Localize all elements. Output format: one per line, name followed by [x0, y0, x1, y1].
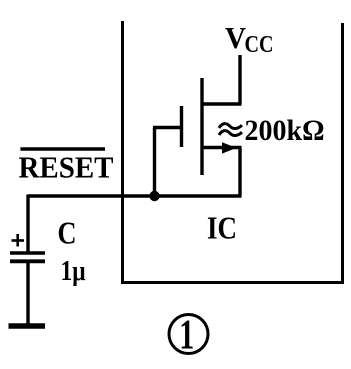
label approx 200k ohm — [219, 114, 325, 147]
wire gate down to node — [153, 128, 156, 197]
capacitor C plates — [10, 253, 45, 261]
wire gate lead — [153, 126, 182, 129]
svg-text:1μ: 1μ — [61, 255, 86, 287]
figure number 1 (circled) — [169, 313, 208, 359]
svg-text:CC: CC — [245, 32, 274, 58]
IC outline box (open top) — [123, 21, 343, 283]
label VCC — [225, 20, 274, 58]
label RESET (active low, overline) — [19, 149, 114, 185]
wire VCC supply lead — [238, 55, 241, 104]
plus polarity mark — [12, 234, 25, 247]
svg-text:1: 1 — [179, 313, 194, 359]
wire source down to node — [238, 148, 241, 197]
svg-text:V: V — [225, 20, 247, 55]
node junction dot — [149, 191, 159, 201]
svg-text:RESET: RESET — [19, 150, 114, 185]
transistor Q1 (internal pull-up MOSFET) — [182, 78, 242, 175]
svg-text:IC: IC — [207, 211, 237, 246]
wire capacitor top lead — [26, 195, 29, 254]
ground — [9, 323, 46, 329]
svg-text:C: C — [58, 214, 77, 250]
wire RESET net (horizontal) — [28, 194, 242, 197]
wire capacitor bottom lead — [26, 261, 29, 324]
svg-text:200kΩ: 200kΩ — [245, 114, 325, 147]
